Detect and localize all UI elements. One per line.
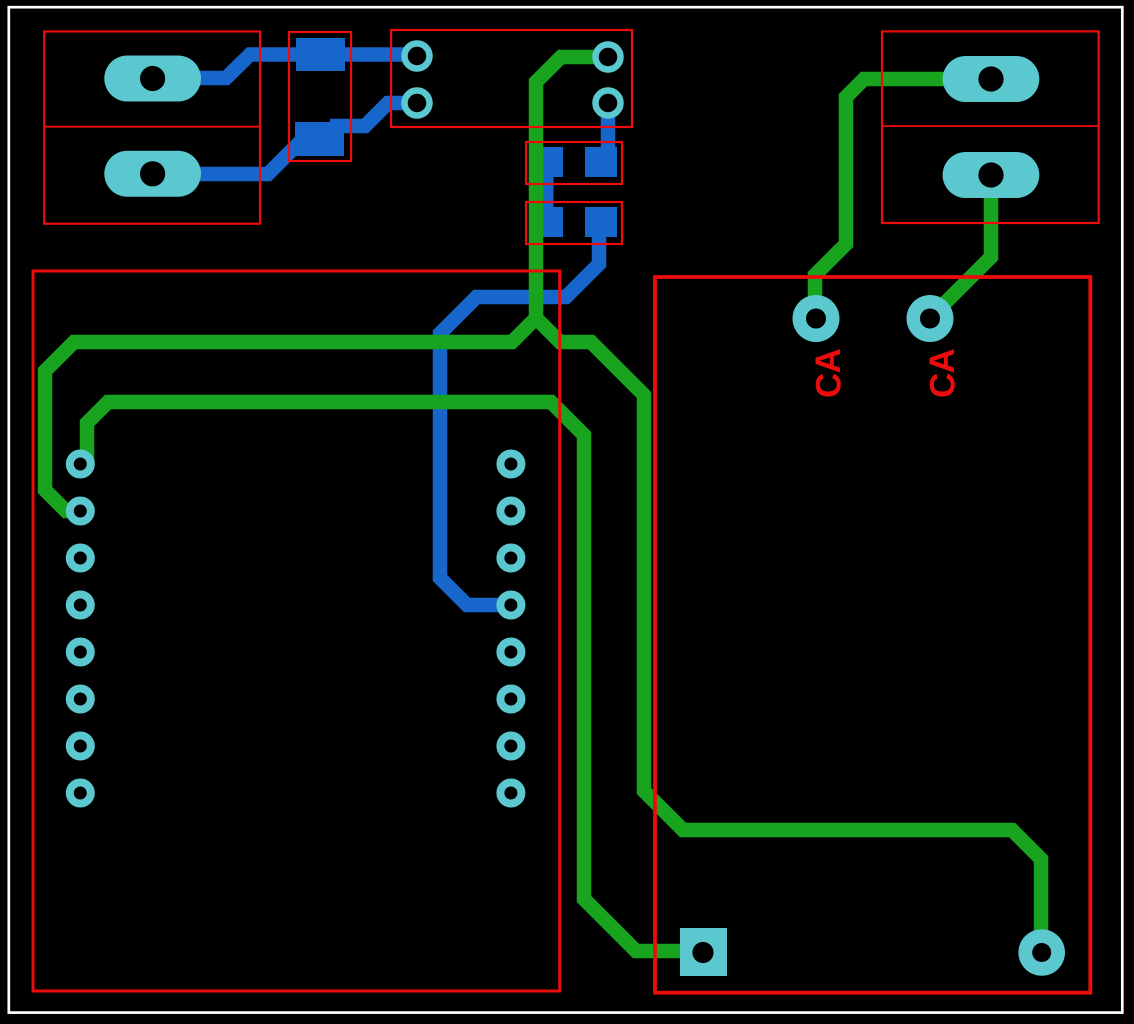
pad X1-2 (oval pad top-left connector) — [104, 151, 201, 197]
svg-text:A: A — [809, 348, 848, 373]
wire bottom-layer net oval2->fuse pad2 — [152, 141, 301, 174]
connector X2 divider — [882, 125, 1099, 127]
pad R1-1 (smd resistor R1 left pad) — [531, 147, 563, 177]
wire bottom-layer net fuse pad2->ring2 — [330, 103, 417, 126]
wire top-layer ring3->junction vertical — [536, 57, 608, 322]
pad TP2 (round pad) — [1018, 929, 1065, 976]
pad TP1 (square pad) — [680, 928, 727, 976]
connector J1 outline — [391, 30, 632, 127]
pad R2-2 (smd resistor R2 right pad) — [585, 207, 617, 237]
pad AC1 (via pad) — [793, 295, 840, 342]
fuse F1 outline — [289, 32, 351, 161]
pad AC2 (via pad) — [907, 295, 954, 342]
pad J1-3 (through hole) — [596, 45, 621, 70]
svg-text:A: A — [923, 348, 962, 373]
wire bottom-layer net oval1->fuse->ring1 — [152, 55, 417, 79]
wire top-layer junction->left header pad2 — [45, 318, 536, 511]
wire bottom-layer ring4->R1 pad — [601, 103, 616, 162]
svg-text:C: C — [924, 373, 963, 398]
wire top-layer oval3->AC pad1 — [815, 79, 991, 318]
wire top-layer oval4->AC pad2 — [930, 175, 991, 318]
pad X1-1 (oval pad top-left connector) — [104, 56, 201, 102]
pad J1-4 (through hole) — [596, 91, 621, 116]
wire top-layer junction->square pad TP1 — [536, 318, 1041, 952]
module U2 outline (big right) — [655, 277, 1090, 993]
pad R2-1 (smd resistor R2 left pad) — [531, 207, 563, 237]
wire top-layer header pad1->round pad TP2 — [80, 402, 700, 951]
module U1 outline (big left) — [33, 271, 560, 991]
wire bottom-layer bridge R1-1 to R2-1 — [543, 160, 554, 220]
connector X1 outline — [44, 32, 260, 224]
resistor R1 outline — [526, 142, 622, 184]
header U1 right pin row — [500, 454, 521, 475]
resistor R2 outline — [526, 202, 622, 244]
pad F1-1 (fuse smd pad top) — [296, 38, 345, 71]
pad X2-2 (oval pad top-right connector) — [943, 152, 1040, 198]
pad X2-1 (oval pad top-right connector) — [943, 56, 1040, 102]
wire bottom-layer R2 pad->header pad4 — [440, 232, 599, 605]
pad R1-2 (smd resistor R1 right pad) — [585, 147, 617, 177]
connector X2 outline — [882, 31, 1099, 223]
pad J1-1 (through hole) — [405, 44, 430, 69]
connector X1 divider — [44, 126, 260, 128]
pad F1-2 (fuse smd pad bottom) — [295, 122, 344, 156]
pad J1-2 (through hole) — [405, 91, 430, 116]
svg-text:C: C — [810, 373, 849, 398]
header U1 left pin row — [70, 454, 91, 475]
